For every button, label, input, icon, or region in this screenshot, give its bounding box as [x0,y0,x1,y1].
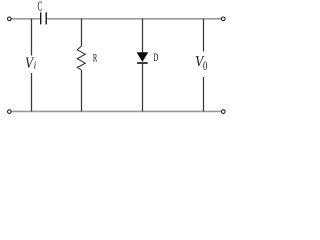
resistor R zigzag [77,46,85,70]
wire Vi branch lower [31,73,33,112]
wire V0 branch lower [203,77,205,112]
svg-text:D: D [153,52,158,64]
terminal bottom-right [222,110,226,114]
capacitor C plates [41,12,47,24]
terminal bottom-left [8,110,12,114]
svg-text:i: i [34,61,37,72]
diode D cathode bar [137,62,148,64]
svg-text:C: C [38,0,43,14]
terminal top-right [222,17,226,21]
wire bottom [11,110,221,112]
diode D triangle (anode) [137,52,149,62]
wire Vi branch upper [31,19,33,56]
wire V0 branch upper [203,19,205,52]
svg-text:R: R [93,50,97,64]
svg-text:0: 0 [203,58,207,73]
wire top (left of capacitor) [11,18,40,20]
wire resistor branch lower stub [81,70,83,112]
wire diode branch lower stub [142,64,144,112]
wire resistor branch upper stub [81,19,83,47]
wire top (right of capacitor) [47,18,222,20]
terminal top-left [8,17,12,21]
wire diode branch upper stub [142,19,144,53]
